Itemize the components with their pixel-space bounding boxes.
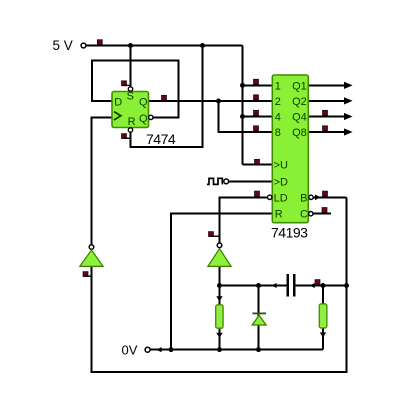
junction 0V / R1: [217, 347, 222, 352]
arrow B output: [315, 195, 321, 201]
bubble R pin U1: [128, 128, 132, 132]
svg-text:Q4: Q4: [292, 112, 307, 124]
svg-text:>D: >D: [274, 177, 288, 189]
wire Q8 output: [308, 131, 344, 133]
wire 0V rail: [150, 349, 323, 351]
bubble Qbar pin U1: [149, 115, 153, 119]
wire resistor R1 branch: [219, 286, 221, 350]
wire clock source to >D pin of U2: [229, 181, 273, 183]
svg-text:Q: Q: [139, 113, 148, 125]
wire pin 4 of U2: [243, 116, 273, 118]
wire resistor R2 branch: [322, 286, 324, 350]
junction cap row / B line: [344, 283, 349, 288]
junction cap row / N2: [217, 283, 222, 288]
junction cap row / diode: [256, 283, 261, 288]
junction Q/pin2: [216, 99, 221, 104]
counter U2 body (74193): [272, 75, 308, 223]
junction cap row / R2: [321, 283, 326, 288]
svg-text:C: C: [300, 209, 308, 221]
test point on B output: [323, 191, 328, 196]
svg-text:7474: 7474: [146, 131, 176, 147]
resistor R2: [319, 304, 327, 328]
test point at N2 input wire: [209, 232, 214, 237]
terminal 5V: [81, 43, 86, 48]
bubble LD pin U2: [268, 195, 272, 199]
clock chevron of U1: [114, 112, 121, 120]
junction pin4: [240, 114, 245, 119]
junction 5V/R: [200, 43, 205, 48]
svg-text:1: 1: [275, 80, 281, 92]
wire Q2 output: [308, 100, 344, 102]
junction 0V / R pin line: [169, 347, 174, 352]
svg-text:2: 2: [275, 96, 281, 108]
test point on pin8 wire: [254, 126, 259, 131]
bubble B pin U2: [309, 195, 313, 199]
test point on Q8 output: [323, 126, 328, 131]
capacitor C1 plates: [287, 274, 296, 297]
svg-text:Q: Q: [139, 97, 148, 109]
svg-text:R: R: [275, 209, 283, 221]
svg-text:Q8: Q8: [292, 127, 307, 139]
test point on >U wire: [255, 159, 260, 164]
test point at N1 input wire: [83, 272, 88, 277]
arrow Q8 output: [344, 128, 353, 135]
wire Qbar to D feedback loop: [92, 61, 179, 118]
svg-text:8: 8: [275, 127, 281, 139]
svg-text:Q1: Q1: [292, 80, 307, 92]
wire clock pin of U1 to inverter N1: [92, 117, 113, 244]
wire R pin of U2 to 0V rail: [171, 214, 273, 350]
svg-text:74193: 74193: [271, 225, 308, 241]
arrow 0V current: [156, 347, 161, 352]
arrow R1 bottom current: [216, 333, 222, 338]
wire pin >U of U2: [243, 164, 273, 166]
arrow Q1 output: [344, 82, 353, 89]
arrow cap left current: [271, 283, 276, 288]
diode D1: [252, 313, 266, 325]
bubble S pin U1: [128, 87, 132, 91]
test point on Q4 output: [323, 110, 328, 115]
op-amp U1 body (7474 flip-flop): [112, 91, 149, 128]
wire Q of U1 to pin 2 of U2: [149, 100, 273, 102]
terminal 0V: [145, 347, 150, 352]
test point on 5V rail: [97, 40, 102, 45]
wire diode branch: [258, 286, 260, 350]
test point on Q wire: [162, 95, 167, 100]
arrow Q4 output: [344, 113, 353, 120]
wire C output stub: [313, 213, 331, 215]
wire 5V to S pin of U1: [130, 46, 132, 87]
svg-text:B: B: [300, 192, 307, 204]
test point at S pin: [122, 81, 127, 86]
test point on cap row: [315, 280, 320, 285]
junction 0V / diode: [256, 347, 261, 352]
test point at R pin of U1: [122, 134, 127, 139]
wire branch to pin 8 of U2: [219, 101, 273, 132]
resistor R1: [216, 305, 223, 328]
clock source symbol: [207, 178, 222, 184]
arrow R1 top current: [216, 296, 222, 301]
wire 5V down to R pin of U1: [131, 46, 203, 148]
wire 5V rail: [87, 45, 243, 47]
test point on pin4 wire: [254, 110, 259, 115]
svg-text:Q2: Q2: [292, 96, 307, 108]
test point on C output: [322, 208, 327, 213]
wire cap row right: [295, 285, 346, 287]
junction 5V/S: [128, 43, 133, 48]
arrow cap right current: [309, 283, 314, 288]
arrow R2 bottom current: [320, 332, 326, 337]
svg-text:>U: >U: [274, 160, 288, 172]
wire B output: [314, 196, 347, 198]
svg-text:S: S: [127, 91, 134, 103]
terminal clock: [224, 179, 229, 184]
inverter N2: [208, 243, 231, 266]
svg-text:0V: 0V: [122, 343, 138, 358]
wire Q1 output: [308, 84, 344, 86]
svg-text:4: 4: [275, 112, 281, 124]
inverter N1: [80, 245, 103, 267]
test point on pin1 wire: [254, 79, 259, 84]
wire LD pin of U2 to inverter N2: [220, 197, 268, 243]
wire 5V to pins 1,4,>U of U2: [242, 46, 244, 165]
svg-text:5 V: 5 V: [53, 38, 73, 53]
bubble C pin U2: [309, 212, 313, 216]
wire pin 1 of U2: [243, 84, 273, 86]
arrow Q2 output: [344, 97, 353, 104]
wire inverter N1 input from bottom link: [92, 197, 347, 372]
wire Q4 output: [308, 116, 344, 118]
test point on LD wire: [255, 191, 260, 196]
svg-text:LD: LD: [274, 192, 288, 204]
svg-text:R: R: [128, 116, 136, 128]
wire inverter N2 input to cap row: [219, 266, 221, 285]
wire cap row left: [220, 285, 287, 287]
test point on pin2 wire: [254, 95, 259, 100]
junction pin1: [240, 83, 245, 88]
svg-text:D: D: [114, 96, 122, 108]
